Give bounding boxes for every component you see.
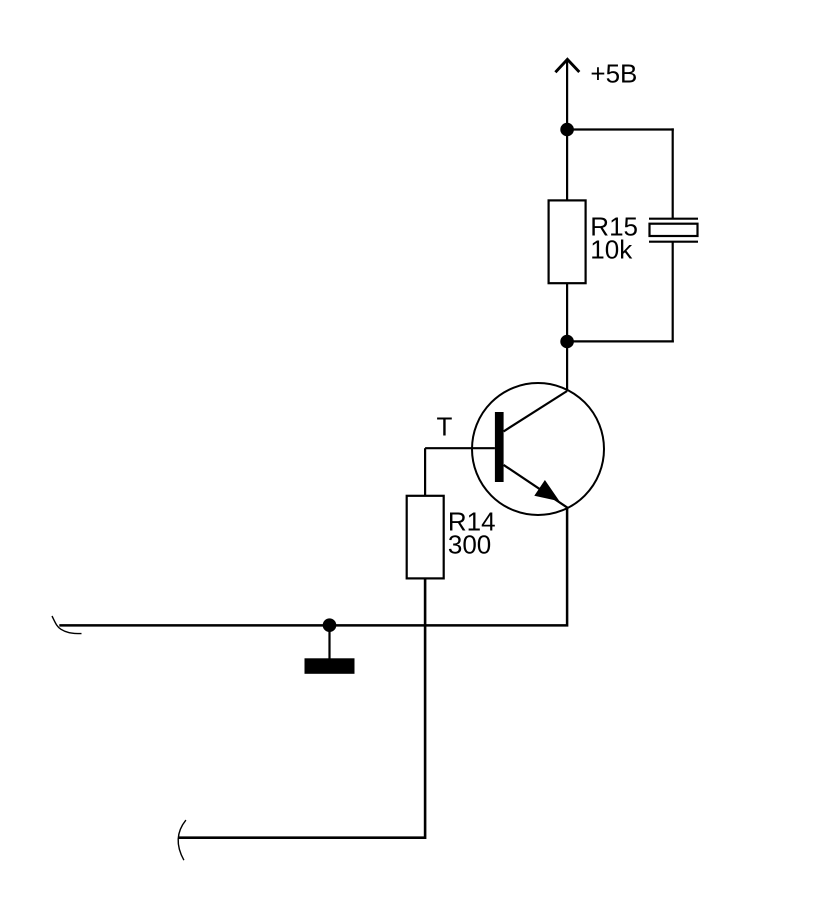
wire: buzzer bottom lead — [672, 242, 674, 343]
break arc at bottom-left end — [178, 820, 186, 860]
break squiggle at left end — [52, 616, 82, 634]
ground stub — [328, 625, 330, 658]
node: junction collector / buzzer branch — [560, 335, 574, 349]
wire: emitter down and long horizontal line — [59, 507, 567, 626]
wire: R15 bottom to collector — [566, 283, 568, 390]
wire: base lead — [425, 447, 495, 449]
svg-text:10k: 10k — [590, 235, 633, 265]
resistor R14 — [407, 496, 444, 579]
wire: buzzer top lead — [672, 128, 674, 218]
resistor R15 — [549, 200, 586, 283]
transistor emitter arrow — [534, 480, 559, 501]
wire: top horizontal to buzzer branch — [567, 128, 674, 130]
svg-text:+5В: +5В — [590, 58, 637, 88]
transistor base bar — [495, 412, 504, 482]
wire: R14 bottom down and bottom horizontal — [179, 578, 426, 837]
svg-text:300: 300 — [448, 530, 491, 560]
wire: base corner down to R14 — [424, 448, 426, 496]
piezo buzzer bottom plate — [649, 241, 698, 243]
transistor emitter line — [504, 465, 567, 507]
piezo buzzer top plate — [649, 218, 698, 220]
wire: bottom horizontal of buzzer branch — [567, 340, 674, 342]
power symbol +5B arrow — [555, 59, 579, 72]
transistor collector line — [504, 391, 567, 431]
node: junction power rail / buzzer branch — [560, 123, 574, 137]
node: junction on ground line — [323, 618, 337, 632]
svg-text:Т: Т — [437, 412, 453, 442]
transistor T body circle — [472, 383, 604, 515]
ground bar (chassis) — [305, 658, 355, 674]
piezo buzzer body — [650, 224, 698, 236]
wire: power rail down to R15 — [566, 59, 568, 201]
